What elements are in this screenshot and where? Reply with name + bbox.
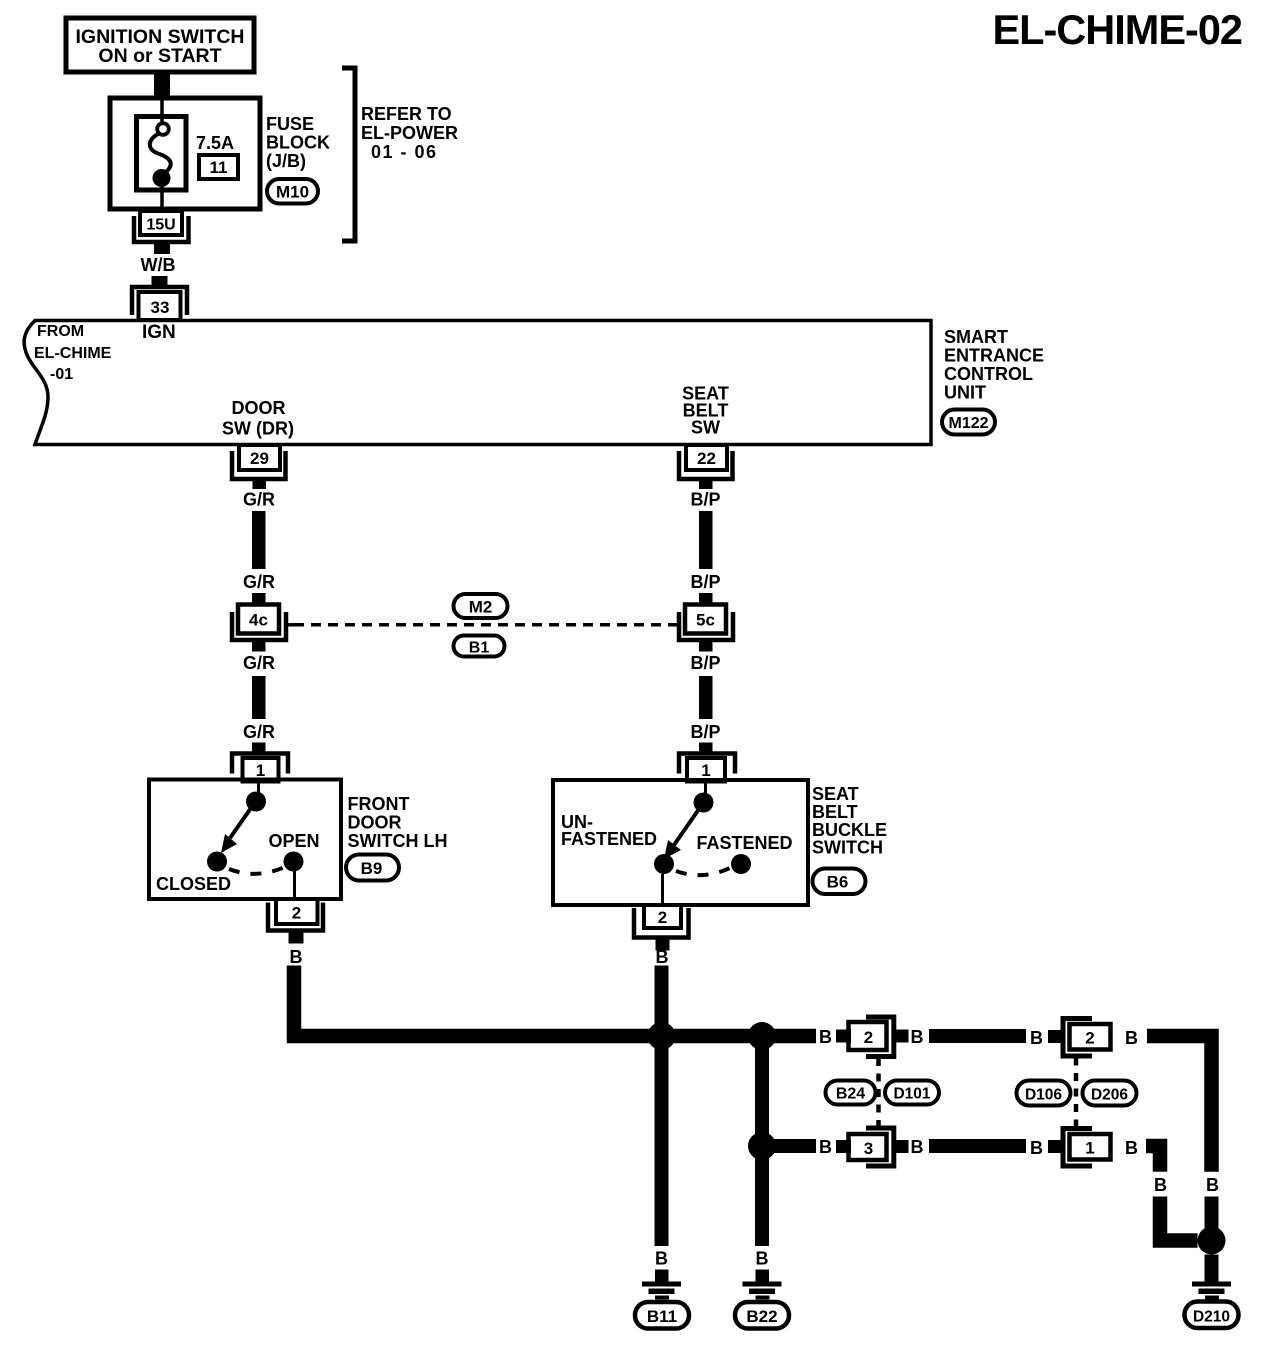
inline connector 2 (D106/D206): [1063, 1019, 1111, 1057]
wire stub: [1048, 1030, 1062, 1043]
wire stub to ground D210: [1205, 1255, 1219, 1282]
oval M122: [942, 410, 995, 435]
svg-text:2: 2: [1085, 1029, 1094, 1048]
svg-text:B: B: [290, 947, 303, 967]
svg-text:B/P: B/P: [690, 722, 720, 742]
connector 15U: [134, 211, 189, 242]
dashed link 4c-5c: [294, 623, 671, 627]
connector 1 (door switch): [232, 754, 288, 782]
svg-text:SEAT: SEAT: [812, 784, 859, 804]
fuse 7.5A: [150, 98, 171, 209]
svg-text:DOOR: DOOR: [232, 398, 286, 418]
wire: [929, 1029, 1026, 1043]
junction dot: [748, 1022, 776, 1050]
svg-text:EL-CHIME: EL-CHIME: [34, 345, 112, 362]
oval B22: [735, 1302, 789, 1329]
wire door switch to bus: [294, 966, 816, 1037]
wire junction to junction row2: [755, 1036, 769, 1146]
svg-text:B22: B22: [746, 1307, 777, 1326]
svg-text:4c: 4c: [249, 611, 268, 630]
svg-text:1: 1: [256, 761, 265, 780]
door switch internals: [207, 781, 304, 899]
svg-text:G/R: G/R: [243, 653, 275, 673]
inline connector 1 (D106/D206): [1063, 1129, 1111, 1167]
svg-text:(J/B): (J/B): [266, 151, 306, 171]
wire stub below 2: [289, 931, 304, 944]
wire: [252, 676, 266, 719]
row2 wire from junction: [762, 1139, 816, 1153]
wire row2 right corner down: [1146, 1146, 1160, 1172]
front door switch box B9: [149, 780, 341, 900]
svg-text:-01: -01: [50, 366, 73, 383]
label FROM EL-CHIME -01: [34, 323, 112, 383]
svg-text:B: B: [819, 1027, 832, 1047]
svg-text:33: 33: [151, 298, 170, 317]
svg-text:1: 1: [701, 761, 710, 780]
svg-text:15U: 15U: [146, 217, 175, 234]
svg-text:UNIT: UNIT: [944, 383, 986, 403]
label SMART ENTRANCE CONTROL UNIT: [944, 327, 1044, 403]
svg-text:G/R: G/R: [243, 572, 275, 592]
svg-text:OPEN: OPEN: [268, 831, 319, 851]
refer-to bracket: [342, 68, 355, 241]
svg-text:2: 2: [658, 908, 667, 927]
svg-text:B: B: [911, 1137, 924, 1157]
oval B24: [826, 1081, 876, 1105]
seat belt buckle switch box B6: [553, 780, 808, 905]
label SEAT BELT SW: [682, 384, 729, 438]
label DOOR SW (DR): [222, 398, 294, 439]
svg-text:B/P: B/P: [690, 653, 720, 673]
smart entrance control unit box: [24, 321, 931, 445]
junction dot row2: [748, 1132, 776, 1160]
svg-text:B: B: [1030, 1138, 1043, 1158]
svg-text:2: 2: [864, 1028, 873, 1047]
svg-text:FRONT: FRONT: [348, 794, 410, 814]
connector 22: [679, 445, 733, 479]
dashed link D106/D206: [1074, 1058, 1079, 1129]
svg-text:B: B: [756, 1249, 769, 1269]
svg-text:CLOSED: CLOSED: [156, 874, 231, 894]
connector 1 (seat belt switch): [679, 754, 735, 782]
svg-text:EL-CHIME-02: EL-CHIME-02: [992, 6, 1242, 53]
wire stub above 33: [152, 276, 168, 287]
oval B6: [813, 869, 866, 895]
svg-text:SMART: SMART: [944, 327, 1008, 347]
junction dot D210: [1198, 1227, 1226, 1255]
oval M10: [267, 179, 318, 204]
wire stub to ground B11: [655, 1270, 669, 1282]
ignition switch box: [66, 18, 254, 72]
svg-text:01 - 06: 01 - 06: [371, 142, 438, 162]
svg-text:SWITCH: SWITCH: [812, 838, 883, 858]
svg-text:B: B: [655, 1249, 668, 1269]
svg-text:B/P: B/P: [690, 490, 720, 510]
label REFER TO EL-POWER 01 - 06: [361, 104, 458, 162]
wire stub: [836, 1140, 851, 1153]
svg-text:D106: D106: [1025, 1087, 1062, 1104]
svg-text:3: 3: [864, 1139, 873, 1158]
svg-text:B/P: B/P: [690, 572, 720, 592]
svg-text:B: B: [656, 947, 669, 967]
wire stub: [894, 1030, 909, 1043]
svg-text:SW (DR): SW (DR): [222, 419, 294, 439]
label SEAT BELT BUCKLE SWITCH: [812, 784, 887, 858]
svg-text:FROM: FROM: [37, 323, 84, 340]
svg-text:7.5A: 7.5A: [196, 133, 234, 153]
wire stub below 4c: [252, 641, 266, 652]
svg-text:B1: B1: [469, 640, 490, 657]
connector 5c: [671, 605, 733, 641]
svg-text:1: 1: [1085, 1139, 1094, 1158]
wire x1211 down to dot: [1205, 1197, 1219, 1229]
wire stub below 15U: [154, 242, 170, 254]
svg-text:BLOCK: BLOCK: [266, 133, 330, 153]
svg-text:B: B: [1125, 1138, 1138, 1158]
wire stub: [1048, 1140, 1062, 1153]
svg-text:B24: B24: [836, 1086, 865, 1103]
svg-text:G/R: G/R: [243, 490, 275, 510]
svg-text:REFER TO: REFER TO: [361, 104, 452, 124]
wire x1160 down to corner right: [1160, 1197, 1198, 1241]
svg-text:M10: M10: [276, 183, 309, 202]
oval D106: [1017, 1081, 1071, 1106]
wire: [929, 1139, 1026, 1153]
svg-text:ON or START: ON or START: [98, 45, 221, 67]
svg-text:FASTENED: FASTENED: [561, 829, 657, 849]
svg-text:G/R: G/R: [243, 722, 275, 742]
label FRONT DOOR SWITCH LH: [348, 794, 448, 851]
junction dot: [648, 1022, 676, 1050]
wire stub to ground B22: [756, 1270, 770, 1282]
wire ignition to fuse block: [154, 72, 170, 98]
svg-text:W/B: W/B: [141, 255, 176, 275]
wire seat belt switch down to B11: [655, 966, 669, 1247]
svg-text:BELT: BELT: [812, 802, 858, 822]
oval B11: [635, 1302, 689, 1329]
svg-text:D210: D210: [1193, 1309, 1230, 1326]
svg-text:CONTROL: CONTROL: [944, 364, 1033, 384]
connector 2 (door switch): [268, 899, 323, 931]
wire stub below 29: [253, 479, 267, 489]
svg-text:M122: M122: [948, 415, 988, 432]
label UN-FASTENED: [561, 812, 657, 849]
svg-text:SW: SW: [691, 418, 720, 438]
wire: [699, 676, 713, 719]
wire stub: [894, 1140, 909, 1153]
wire stub above 4c: [252, 593, 266, 605]
svg-text:FASTENED: FASTENED: [697, 833, 793, 853]
ground B22: [743, 1282, 782, 1300]
connector 2 (seat belt switch): [634, 905, 689, 938]
connector 4c: [232, 605, 294, 641]
svg-text:B6: B6: [827, 873, 849, 892]
svg-text:B9: B9: [361, 859, 383, 878]
svg-text:EL-POWER: EL-POWER: [361, 123, 458, 143]
ground D210: [1192, 1282, 1231, 1300]
inline connector 3 (B24/D101): [849, 1128, 894, 1166]
oval D101: [885, 1081, 939, 1105]
svg-text:D101: D101: [893, 1086, 930, 1103]
dashed link B24/D101: [876, 1058, 881, 1126]
svg-text:IGN: IGN: [142, 322, 176, 343]
wire: [699, 511, 713, 569]
connector 33: [132, 287, 187, 320]
svg-text:29: 29: [250, 449, 269, 468]
svg-text:B: B: [911, 1027, 924, 1047]
svg-text:ENTRANCE: ENTRANCE: [944, 346, 1044, 366]
oval M2: [454, 594, 508, 618]
svg-text:B: B: [819, 1137, 832, 1157]
seat belt switch internals: [654, 781, 751, 905]
wire stub below 5c: [699, 641, 713, 652]
oval D210: [1185, 1302, 1239, 1329]
svg-text:B: B: [1154, 1175, 1167, 1195]
svg-text:SWITCH LH: SWITCH LH: [348, 831, 448, 851]
svg-text:11: 11: [210, 158, 228, 177]
svg-text:B: B: [1030, 1028, 1043, 1048]
svg-text:B: B: [1206, 1175, 1219, 1195]
label FUSE BLOCK (J/B): [266, 114, 330, 171]
inline connector 2 (B24/D101): [849, 1017, 894, 1057]
oval B1: [454, 636, 505, 657]
wire right top corner: [1147, 1036, 1212, 1172]
wire stub above 5c: [699, 593, 713, 605]
ground B11: [642, 1282, 681, 1300]
wire stub below 2: [656, 938, 670, 951]
fuse number 11 box: [199, 155, 238, 179]
svg-text:B: B: [1125, 1028, 1138, 1048]
oval D206: [1083, 1081, 1137, 1106]
svg-text:D206: D206: [1091, 1087, 1128, 1104]
svg-text:22: 22: [697, 449, 716, 468]
wire stub: [836, 1030, 851, 1043]
wire down to B22: [755, 1146, 769, 1246]
svg-text:DOOR: DOOR: [348, 813, 402, 833]
connector 29: [232, 445, 286, 479]
oval B9: [346, 855, 399, 881]
fuse block M10: [110, 98, 260, 209]
svg-text:FUSE: FUSE: [266, 114, 314, 134]
wire stub above 1: [699, 743, 713, 754]
wire stub below 22: [699, 479, 713, 489]
wire: [252, 511, 266, 569]
svg-text:M2: M2: [469, 598, 493, 617]
wire stub above 1: [252, 743, 266, 754]
svg-text:5c: 5c: [696, 611, 715, 630]
svg-text:B11: B11: [647, 1307, 677, 1326]
svg-text:2: 2: [292, 904, 301, 923]
